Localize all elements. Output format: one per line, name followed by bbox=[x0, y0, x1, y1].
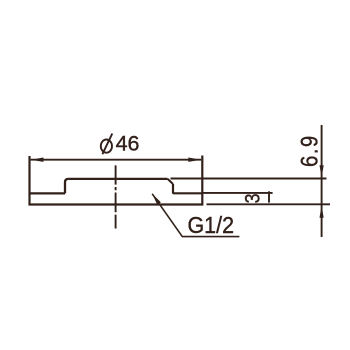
wire raised top surface bbox=[68, 178, 167, 180]
leader line for G1/2 bbox=[152, 194, 239, 237]
centerline axis bbox=[115, 165, 117, 228]
wire right step vertical bbox=[173, 184, 174, 193]
dimension tick for 3 bbox=[268, 191, 270, 202]
wire top extension line for 6.9 bbox=[171, 178, 327, 180]
dimension line 6.9 bbox=[321, 125, 323, 237]
arrow of leader bbox=[152, 194, 161, 205]
arrow right of phi46 bbox=[188, 158, 201, 162]
value label phi symbol bbox=[101, 134, 113, 155]
wire left step with round corner bbox=[65, 179, 68, 194]
svg-text:G1/2: G1/2 bbox=[188, 212, 235, 238]
svg-text:46: 46 bbox=[116, 131, 140, 155]
svg-text:6.9: 6.9 bbox=[296, 134, 323, 167]
dimension line phi46 bbox=[31, 159, 202, 161]
wire bottom extension line bbox=[207, 203, 331, 205]
wire flange top left bbox=[30, 192, 66, 194]
wire top extension line for 3 bbox=[202, 192, 272, 194]
arrow top of 6.9 pointing down bbox=[320, 165, 324, 177]
arrow left of phi46 bbox=[31, 158, 44, 162]
wire left extension/edge vertical bbox=[28, 156, 30, 204]
wire flange top right bbox=[174, 192, 202, 194]
wire right extension/edge vertical bbox=[201, 156, 203, 204]
arrow bottom of 6.9 pointing up bbox=[320, 205, 324, 217]
wire right chamfer bbox=[168, 179, 173, 184]
wire part bottom edge bbox=[28, 203, 203, 205]
svg-text:3: 3 bbox=[241, 193, 265, 203]
